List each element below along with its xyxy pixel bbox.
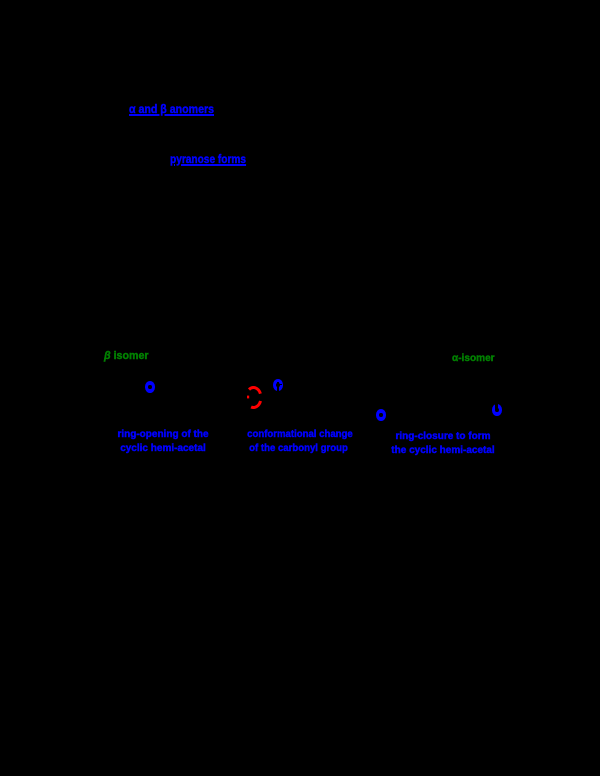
label: beta isomer [104,350,149,362]
O atom 4 [492,404,502,416]
label: alpha isomer [452,352,495,364]
O atom 3 [376,409,386,421]
O atom 1 [145,381,155,393]
black bond over O4 [495,403,498,410]
caption 3: ring-closure to form the cyclic hemi-acetal [391,430,495,457]
red dashed highlight ellipse [240,381,270,415]
black bond over O2 [277,382,279,391]
link: alpha and beta anomers [129,102,214,116]
black bond stub over O2 [279,384,282,386]
caption 1: ring-opening of the cyclic hemi-acetal [117,428,209,455]
caption 2: conformational change of the carbonyl group [247,428,350,455]
link: pyranose forms [170,152,246,166]
O atom 2 [273,379,283,391]
